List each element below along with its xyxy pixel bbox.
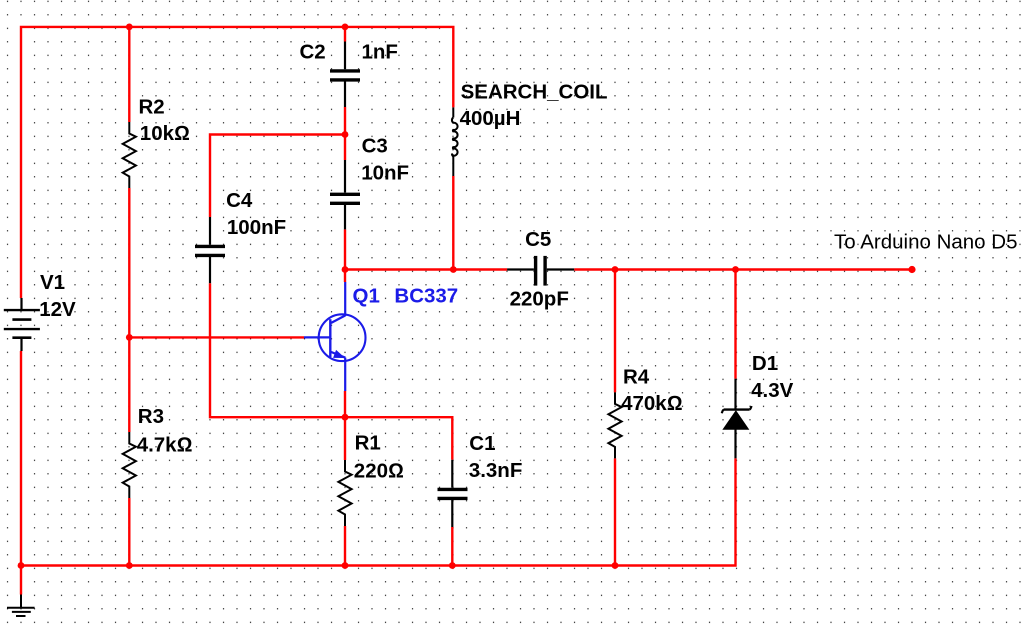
wire C4 top to C2C3 junction <box>210 135 345 218</box>
svg-text:R2: R2 <box>139 96 165 119</box>
capacitor C4 <box>195 217 225 283</box>
svg-text:C5: C5 <box>525 228 551 251</box>
wire C4 bottom emitter row to C1 <box>210 283 452 460</box>
wire R4 column top <box>614 270 616 393</box>
junction base node <box>126 334 133 341</box>
capacitor C5 <box>507 256 574 286</box>
junction bottom rail R4 <box>612 562 619 569</box>
junction D1 top <box>732 266 739 273</box>
junction bottom rail R3 <box>126 562 133 569</box>
wire top rail and left rail top and coil column top <box>21 27 453 298</box>
svg-text:220Ω: 220Ω <box>354 460 404 483</box>
svg-text:R1: R1 <box>355 432 381 455</box>
svg-text:10nF: 10nF <box>361 161 409 184</box>
junction bottom rail R1 <box>342 562 349 569</box>
junction top rail R2 <box>126 24 133 31</box>
svg-text:BC337: BC337 <box>394 284 458 307</box>
capacitor C1 <box>438 460 468 527</box>
transistor Q1 <box>304 282 366 391</box>
svg-text:4.7kΩ: 4.7kΩ <box>137 433 193 456</box>
wire base <box>129 336 304 338</box>
wire R4 column bottom <box>614 458 616 565</box>
junction coil bottom <box>450 266 457 273</box>
svg-text:220pF: 220pF <box>510 288 569 311</box>
svg-text:400µH: 400µH <box>460 107 521 130</box>
wire collector row left of C5 <box>345 268 507 270</box>
zener diode D1 <box>722 379 752 459</box>
wire left rail bottom to ground stub <box>20 351 22 595</box>
junction top rail C2 <box>342 24 349 31</box>
svg-text:D1: D1 <box>752 352 778 375</box>
ground <box>7 595 35 617</box>
wire emitter to node <box>344 391 346 417</box>
wire R3 bottom <box>128 498 130 566</box>
svg-text:1nF: 1nF <box>362 41 398 64</box>
wire C1 bottom <box>451 527 453 566</box>
svg-text:SEARCH_COIL: SEARCH_COIL <box>461 81 608 104</box>
svg-text:10kΩ: 10kΩ <box>140 122 190 145</box>
svg-text:100nF: 100nF <box>227 216 286 239</box>
wire R1 top <box>344 417 346 460</box>
svg-text:To Arduino Nano D5: To Arduino Nano D5 <box>834 231 1017 254</box>
svg-text:4.3V: 4.3V <box>751 379 793 402</box>
capacitor C3 <box>330 160 360 229</box>
svg-text:R4: R4 <box>623 366 650 389</box>
svg-text:Q1: Q1 <box>353 284 380 307</box>
terminal To Arduino Nano D5 <box>908 266 915 273</box>
junction C2 C3 C4 <box>342 131 349 138</box>
junction bottom rail ground <box>18 562 25 569</box>
resistor R2 <box>123 122 136 188</box>
svg-text:V1: V1 <box>40 271 65 294</box>
svg-text:C4: C4 <box>226 189 253 212</box>
wire bottom rail with D1 column riser <box>21 458 736 565</box>
svg-text:C2: C2 <box>300 40 326 63</box>
resistor R3 <box>123 432 136 498</box>
svg-text:12V: 12V <box>39 298 76 321</box>
capacitor C2 <box>330 42 360 108</box>
battery V1 <box>4 298 40 351</box>
svg-text:R3: R3 <box>138 405 164 428</box>
junction bottom rail C1 <box>449 562 456 569</box>
svg-text:470kΩ: 470kΩ <box>621 392 682 415</box>
resistor R1 <box>338 460 351 526</box>
wire coil bottom to collector row <box>452 176 454 270</box>
wire C3 to collector node <box>344 229 346 282</box>
junction R4 top <box>612 266 619 273</box>
wire D1 column top <box>734 270 736 379</box>
resistor R4 <box>608 392 621 458</box>
wire C2 top stub <box>344 27 346 42</box>
svg-text:C3: C3 <box>362 134 388 157</box>
junction emitter node <box>342 414 349 421</box>
svg-text:C1: C1 <box>469 432 495 455</box>
junction collector node <box>342 266 349 273</box>
wire collector row right of C5 to terminal <box>574 268 912 270</box>
wire R2 column top <box>128 27 130 122</box>
wire C2 to C3 <box>344 107 346 160</box>
wire R1 bottom <box>344 526 346 566</box>
inductor SEARCH_COIL <box>452 107 458 176</box>
svg-text:3.3nF: 3.3nF <box>469 459 523 482</box>
wire R2 to R3 column <box>128 188 130 432</box>
